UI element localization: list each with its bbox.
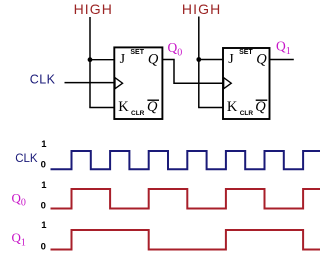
flip-flop U2 box [223,48,270,119]
svg-text:Q: Q [148,52,159,68]
svg-text:1: 1 [41,180,47,191]
CLK waveform [51,151,321,169]
svg-text:CLK: CLK [30,73,56,87]
svg-text:CLK: CLK [15,153,38,165]
svg-text:CLR: CLR [131,110,145,117]
wire Q0 net [162,60,223,84]
svg-text:0: 0 [41,160,46,171]
U2 clock triangle [224,78,232,89]
svg-text:HIGH: HIGH [182,1,221,17]
svg-text:1: 1 [41,139,47,150]
svg-text:0: 0 [41,200,46,211]
svg-text:K: K [118,99,129,115]
flip-flop U1 box [114,47,162,119]
wire HIGH2 vertical [198,17,200,108]
U1 clock triangle [115,78,123,89]
svg-text:CLR: CLR [240,110,254,117]
svg-text:K: K [227,99,238,115]
svg-text:1: 1 [41,220,47,231]
wire CLK input [65,82,115,84]
svg-text:SET: SET [130,49,144,56]
svg-text:0: 0 [41,242,46,253]
wire Q1 output [270,59,294,61]
svg-text:HIGH: HIGH [74,1,113,17]
svg-text:J: J [228,52,234,67]
svg-text:Q: Q [255,99,266,115]
Q1 waveform [51,230,321,250]
svg-text:SET: SET [239,49,253,56]
Q0 waveform [51,189,321,209]
wire HIGH1 vertical [89,17,91,108]
svg-text:Q: Q [147,99,158,115]
svg-text:Q: Q [256,52,267,68]
svg-text:J: J [120,52,126,67]
wire K1 input [89,107,114,109]
wire J2 input [199,59,223,61]
node junction dot J1 [88,57,93,62]
wire J1 input [90,59,114,61]
wire K2 input [198,107,223,109]
node junction dot J2 [196,57,201,62]
